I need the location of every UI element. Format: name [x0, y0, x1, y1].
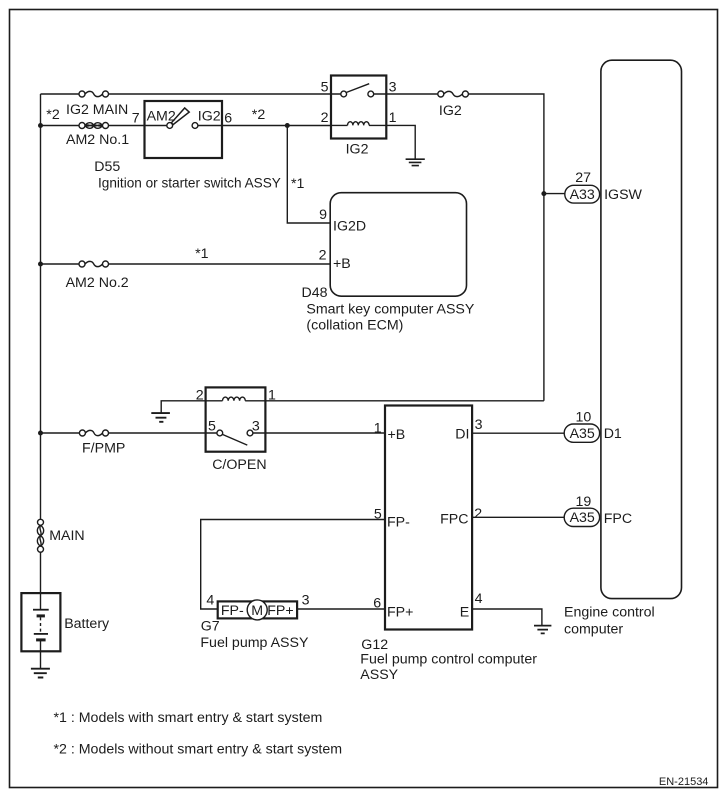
svg-text:FP+: FP+ [267, 603, 293, 619]
svg-text:5: 5 [374, 507, 382, 523]
svg-text:3: 3 [389, 80, 397, 96]
svg-text:2: 2 [474, 506, 482, 522]
svg-text:IG2 MAIN: IG2 MAIN [66, 102, 128, 118]
svg-text:G7: G7 [201, 619, 220, 635]
svg-text:*2: *2 [252, 107, 266, 123]
svg-text:F/PMP: F/PMP [82, 440, 125, 456]
svg-text:M: M [251, 603, 263, 619]
svg-text:*2: *2 [46, 107, 60, 123]
svg-text:ASSY: ASSY [360, 667, 398, 683]
svg-text:*1: *1 [291, 176, 305, 192]
svg-text:FP-: FP- [387, 515, 410, 531]
svg-text:4: 4 [206, 593, 214, 609]
svg-text:E: E [460, 605, 469, 621]
svg-text:3: 3 [475, 417, 483, 433]
svg-text:IG2D: IG2D [333, 218, 366, 234]
svg-text:Fuel pump ASSY: Fuel pump ASSY [200, 635, 309, 651]
svg-text:AM2 No.1: AM2 No.1 [66, 132, 129, 148]
svg-text:19: 19 [576, 494, 592, 510]
svg-text:7: 7 [132, 110, 140, 126]
svg-text:1: 1 [374, 420, 382, 436]
svg-text:2: 2 [319, 248, 327, 264]
svg-text:Ignition or starter switch ASS: Ignition or starter switch ASSY [98, 176, 281, 191]
svg-text:1: 1 [389, 110, 397, 126]
svg-text:IGSW: IGSW [604, 187, 642, 203]
svg-text:2: 2 [196, 387, 204, 403]
svg-text:6: 6 [373, 595, 381, 611]
svg-text:6: 6 [224, 110, 232, 126]
svg-text:3: 3 [302, 593, 310, 609]
svg-text:+B: +B [388, 427, 406, 443]
svg-text:*2 : Models without smart entr: *2 : Models without smart entry & start … [54, 742, 343, 758]
svg-text:D48: D48 [302, 285, 328, 301]
svg-text:27: 27 [575, 170, 591, 186]
svg-text:DI: DI [455, 426, 469, 442]
svg-text:IG2: IG2 [346, 142, 369, 158]
svg-text:2: 2 [321, 110, 329, 126]
svg-text:MAIN: MAIN [49, 528, 84, 544]
svg-text:*1 : Models with smart entry &: *1 : Models with smart entry & start sys… [54, 710, 323, 726]
svg-text:Fuel pump control computer: Fuel pump control computer [360, 652, 537, 668]
svg-text:Battery: Battery [64, 616, 110, 632]
svg-text:FP+: FP+ [387, 605, 413, 621]
svg-text:EN-21534: EN-21534 [659, 776, 709, 788]
svg-text:9: 9 [319, 207, 327, 223]
svg-text:FPC: FPC [604, 511, 632, 527]
svg-text:3: 3 [252, 419, 260, 435]
svg-text:A33: A33 [570, 187, 595, 203]
svg-text:1: 1 [268, 387, 276, 403]
svg-text:AM2: AM2 [147, 108, 176, 124]
svg-text:5: 5 [208, 419, 216, 435]
svg-text:AM2 No.2: AM2 No.2 [66, 275, 129, 291]
svg-text:G12: G12 [361, 637, 388, 653]
svg-text:computer: computer [564, 622, 623, 638]
svg-text:FPC: FPC [440, 512, 468, 528]
svg-text:10: 10 [576, 409, 592, 425]
svg-text:*1: *1 [195, 246, 209, 262]
svg-text:+B: +B [333, 256, 351, 272]
svg-text:(collation ECM): (collation ECM) [306, 318, 403, 334]
svg-text:5: 5 [321, 80, 329, 96]
svg-text:Engine control: Engine control [564, 605, 655, 621]
svg-text:IG2: IG2 [439, 103, 462, 119]
svg-text:FP-: FP- [221, 603, 244, 619]
svg-text:D1: D1 [604, 426, 622, 442]
svg-text:4: 4 [475, 591, 483, 607]
svg-text:Smart key computer ASSY: Smart key computer ASSY [306, 301, 474, 317]
svg-text:C/OPEN: C/OPEN [212, 457, 266, 473]
svg-text:A35: A35 [570, 426, 595, 442]
svg-text:D55: D55 [94, 159, 120, 175]
svg-text:A35: A35 [570, 510, 595, 526]
svg-text:IG2: IG2 [198, 108, 221, 124]
